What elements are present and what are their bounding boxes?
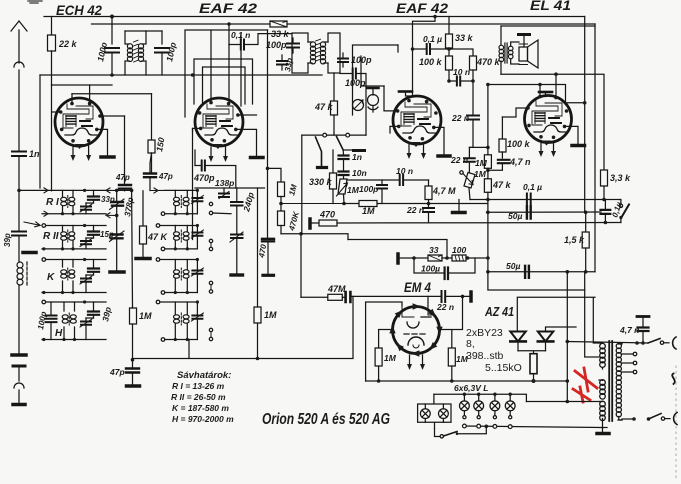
tube ECH42 pins bbox=[59, 102, 102, 149]
svg-text:47 K: 47 K bbox=[147, 232, 169, 242]
svg-text:22 n: 22 n bbox=[450, 155, 468, 165]
speaker box bbox=[500, 26, 502, 74]
svg-text:EAF 42: EAF 42 bbox=[199, 0, 257, 16]
coil K bbox=[63, 260, 74, 293]
wire heater rail y381 bbox=[366, 380, 568, 382]
variable capacitor 378p bbox=[110, 190, 125, 215]
wire rail y233.8 segment bbox=[281, 234, 348, 240]
speaker top bar bbox=[519, 35, 530, 48]
wire secondary top to plug row bbox=[618, 343, 622, 344]
coil antenna primary bbox=[17, 262, 27, 354]
wire ECH42 left pins to column bbox=[52, 85, 61, 191]
band switch wires around tubes bbox=[192, 128, 194, 131]
cathode arrows EM4 bbox=[407, 355, 425, 370]
variable capacitor (osc gang) bbox=[230, 232, 243, 274]
svg-text:1M: 1M bbox=[139, 311, 152, 321]
wire x567.3 drop bbox=[566, 272, 568, 402]
grid cap bar EL41 bbox=[539, 92, 552, 96]
wire x267.5 drop bbox=[267, 30, 269, 238]
resistor 1M (AVC divider upper) bbox=[278, 182, 285, 204]
wire rail y75 bbox=[40, 74, 322, 76]
potentiometer 1M (tone) bbox=[460, 171, 475, 200]
wire x301 riser bbox=[300, 234, 302, 297]
wire RI top rail bbox=[19, 189, 106, 191]
svg-text:10 n: 10 n bbox=[396, 166, 413, 176]
junction 3,3k/rail bbox=[602, 198, 606, 202]
tube EL41 envelope bbox=[525, 96, 572, 143]
capacitor 10n (screen bypass) bbox=[449, 77, 473, 86]
svg-text:100p: 100p bbox=[266, 40, 287, 50]
svg-text:470 k: 470 k bbox=[476, 57, 501, 67]
scan artifact top-left bbox=[28, 1, 42, 3]
capacitor 33p bbox=[277, 55, 287, 70]
resistor 47k (EL41 cathode) bbox=[484, 170, 491, 199]
wire rail y271.8 bbox=[488, 271, 595, 273]
svg-text:39p: 39p bbox=[3, 233, 12, 247]
ground (RF gang) bbox=[110, 270, 124, 274]
capacitor 100p (coupling) bbox=[340, 69, 366, 87]
lamp 5 bbox=[420, 404, 430, 422]
wire plate column x473 down bbox=[472, 81, 474, 115]
osc coil RI bbox=[175, 190, 187, 213]
junction x567.3/y341.5 bbox=[566, 340, 570, 344]
wire rail y199.5 bbox=[470, 199, 620, 201]
wire bottom rail y358 bbox=[133, 296, 354, 358]
junction 1M right/rail bbox=[450, 379, 454, 383]
wire osc bank bottom to rail bbox=[188, 340, 190, 359]
wire rail y239.5 bbox=[348, 240, 447, 259]
contact H top bbox=[42, 300, 46, 304]
primary winding taps left bbox=[593, 298, 599, 343]
svg-text:4,7 n: 4,7 n bbox=[509, 157, 531, 167]
wire diode2 anode feed bbox=[546, 327, 577, 332]
resistor 33 bbox=[428, 255, 452, 261]
svg-text:EM 4: EM 4 bbox=[404, 280, 431, 295]
resistor 1M (EM4 right) bbox=[448, 348, 455, 381]
junction 33/100 bbox=[445, 256, 449, 260]
wire EM4 top feed bbox=[427, 296, 429, 307]
junction 0,1u/x412 bbox=[411, 47, 415, 51]
tube EAF42#2 envelope bbox=[393, 96, 441, 144]
wire x40 drop to band rail bbox=[39, 75, 41, 188]
wire 22n to 1M top bbox=[469, 146, 488, 148]
svg-text:Sávhatárok:: Sávhatárok: bbox=[177, 370, 231, 381]
resistor 470k (plate) bbox=[470, 56, 477, 81]
junction 470k bottom bbox=[471, 79, 475, 83]
resistor 330k bbox=[330, 150, 337, 204]
svg-text:4,7 n: 4,7 n bbox=[619, 325, 639, 335]
wire diode1 anode feed bbox=[517, 297, 595, 332]
tube EAF42#2 internals bbox=[401, 102, 435, 133]
transformer left winding top group bbox=[600, 343, 606, 367]
wire K top rail bbox=[46, 259, 106, 261]
coil H bbox=[64, 302, 75, 340]
transformer left winding mid group bbox=[600, 380, 606, 399]
switch arrow RI bottom bbox=[44, 211, 48, 216]
wire RII bottom rail bbox=[42, 248, 106, 250]
resistor 470K (AVC divider lower) bbox=[278, 204, 285, 234]
osc row RII top rail bbox=[160, 225, 197, 227]
switch contact b bbox=[346, 133, 350, 137]
resistor 1M (grid EL41) bbox=[484, 147, 491, 170]
svg-text:1M: 1M bbox=[474, 169, 487, 179]
junction dots H bbox=[42, 300, 86, 341]
svg-text:47M: 47M bbox=[327, 284, 346, 294]
resistor 47K (AVC) bbox=[140, 191, 147, 257]
junction x116.7 nodes bbox=[115, 189, 119, 193]
wire x487.9 column bbox=[487, 85, 489, 273]
transformer secondary winding right bbox=[616, 343, 621, 417]
junction node rail1/x112 bbox=[110, 15, 114, 19]
switch blade b bbox=[337, 137, 344, 151]
wire plug bottom stub bbox=[665, 418, 670, 420]
osc coil K bbox=[175, 260, 187, 293]
capacitor 47p (osc pad) bbox=[126, 360, 139, 385]
cathode arrows EL41 bbox=[539, 142, 557, 157]
contact K top bbox=[42, 258, 46, 262]
tuning indicator symbol bbox=[368, 88, 379, 112]
mains squiggle bbox=[672, 374, 675, 385]
wire tube2 left pin to long drop x192.5 bbox=[193, 128, 201, 239]
wire long vertical x257 bbox=[257, 188, 259, 307]
speaker bbox=[519, 40, 538, 68]
junction divider/rail bbox=[279, 202, 283, 206]
red X mark 1 bbox=[575, 368, 597, 391]
wire x229 to tube2 grid pin bbox=[228, 45, 230, 104]
tube EAF42#1 pins bbox=[198, 101, 240, 149]
switch (dial lamps) bbox=[435, 426, 487, 438]
resistor 22k bbox=[48, 17, 56, 86]
svg-text:EAF 42: EAF 42 bbox=[396, 0, 448, 16]
contact pair H bbox=[209, 328, 212, 340]
capacitor 4,7n (tone) bbox=[488, 160, 510, 171]
wire AVC line y180 bbox=[347, 179, 429, 181]
wire 47p B to bank top bbox=[150, 188, 165, 193]
IF transformer T2 left box bbox=[292, 33, 308, 73]
wire T1 top bbox=[125, 30, 146, 32]
resistor 100 bbox=[452, 255, 488, 261]
junction x257 bbox=[256, 357, 260, 361]
ground EL41 cathode bbox=[565, 126, 585, 145]
svg-text:1n: 1n bbox=[352, 152, 362, 162]
junction 4,7n row bbox=[641, 341, 645, 345]
junction lamps rail bbox=[463, 393, 512, 396]
wire x229 drop bbox=[228, 24, 230, 45]
wire heater/plug row y343 bbox=[567, 342, 648, 344]
junction 33k/0,1u bbox=[447, 47, 451, 51]
resistor 33k (screen) bbox=[446, 17, 453, 57]
svg-text:H: H bbox=[55, 328, 63, 339]
ground tube3 cathode bbox=[434, 127, 450, 156]
capacitor 1n (AF) bbox=[339, 150, 349, 171]
svg-text:50µ: 50µ bbox=[506, 261, 520, 271]
terminal bar (AVC det) bbox=[354, 149, 365, 152]
wire right rail x584.7 bbox=[584, 17, 586, 213]
junction lamp bus bbox=[485, 425, 489, 429]
cathode arrows ECH42 bbox=[71, 146, 92, 161]
resistor 100k (EL41 grid stopper) bbox=[499, 117, 506, 158]
wire RII top rail bbox=[46, 225, 106, 227]
contact pair RII bbox=[209, 239, 212, 250]
wire EAF42#1 routing box inner2 bbox=[203, 67, 246, 104]
wire 470k top bbox=[449, 49, 473, 56]
svg-text:5..15kO: 5..15kO bbox=[485, 362, 522, 374]
capacitor 15p RII bbox=[88, 226, 99, 239]
scan edge dots right bbox=[675, 366, 677, 480]
potentiometer 1M (volume) bbox=[337, 179, 348, 204]
wire EL41 grid from 100k bbox=[502, 108, 528, 117]
ground (transformer) bbox=[597, 428, 609, 434]
junction x487.9/y258 bbox=[486, 256, 490, 260]
svg-text:330 k: 330 k bbox=[309, 177, 333, 187]
svg-text:R II: R II bbox=[43, 231, 59, 242]
svg-text:1,5 k: 1,5 k bbox=[564, 235, 585, 245]
plug bottom bbox=[674, 413, 677, 425]
wire speaker box top/right bbox=[501, 25, 595, 27]
contact pair K bbox=[209, 281, 212, 293]
capacitor 100u bypass loop bbox=[414, 258, 475, 279]
secondary taps bbox=[622, 352, 637, 374]
antenna bbox=[11, 21, 27, 151]
svg-text:138p: 138p bbox=[215, 178, 234, 188]
svg-text:100µ: 100µ bbox=[421, 264, 440, 274]
svg-text:22 n: 22 n bbox=[406, 205, 424, 215]
svg-text:100: 100 bbox=[452, 245, 466, 255]
trimmer K bbox=[80, 275, 94, 293]
wire rail y222.5 (B+) bbox=[337, 222, 621, 225]
lamp 6 bbox=[439, 404, 449, 422]
junction B+/lamp line bbox=[566, 400, 570, 404]
svg-text:1M: 1M bbox=[347, 185, 360, 195]
svg-text:ECH 42: ECH 42 bbox=[56, 2, 102, 18]
junction pot/rail bbox=[342, 202, 346, 206]
IF transformer T2 windings bbox=[308, 39, 328, 64]
svg-text:1M: 1M bbox=[384, 353, 397, 363]
wire ECH42 top pins bbox=[72, 85, 90, 104]
junction x567.3/y381 bbox=[566, 379, 570, 383]
capacitor 22n (plate decoupling) bbox=[467, 116, 479, 148]
wire EM4 top rail bbox=[352, 295, 469, 297]
resistor 100k (divider) bbox=[446, 56, 453, 81]
wire EM4 box bbox=[366, 302, 402, 381]
wire screen line y84.5 bbox=[488, 85, 585, 103]
svg-text:100p: 100p bbox=[359, 184, 378, 194]
wire lamp bottom bus bbox=[463, 426, 602, 428]
wire rail2 bbox=[92, 23, 596, 25]
wire 33 row bbox=[400, 257, 429, 259]
wire EL41 top pin feeds bbox=[540, 74, 556, 97]
svg-text:470p: 470p bbox=[193, 173, 215, 183]
junction 100k/10n bbox=[447, 79, 451, 83]
resistor surge (5..15k) bbox=[530, 354, 537, 381]
wire rail y203.5 bbox=[344, 203, 488, 205]
resistor 47M bbox=[301, 294, 344, 300]
capacitor 240p (padder) bbox=[231, 188, 243, 234]
osc trimmer K bbox=[191, 260, 203, 293]
svg-text:470: 470 bbox=[319, 210, 335, 220]
ground (47K) bbox=[136, 257, 150, 261]
capacitor 470p bbox=[195, 150, 236, 188]
wire blade b to bar bbox=[343, 149, 359, 151]
wire AVC switch line bbox=[302, 134, 366, 136]
terminal bar (470 row) bbox=[308, 219, 312, 228]
tube ECH42 envelope bbox=[55, 98, 103, 146]
junction plug row bbox=[635, 341, 639, 345]
svg-text:100 k: 100 k bbox=[419, 57, 443, 67]
wire IF 47k to line bbox=[333, 133, 335, 135]
junction 4,7M/rail bbox=[427, 202, 431, 206]
wire x241 tube2 feed bbox=[240, 34, 242, 106]
capacitor 22n (EM4 grid) bbox=[442, 291, 446, 302]
resistor 470 bbox=[312, 220, 338, 226]
earth electrode symbol bbox=[13, 366, 25, 405]
svg-text:0,1 µ: 0,1 µ bbox=[523, 182, 542, 192]
osc row RI bottom rail bbox=[165, 213, 197, 215]
contact RII top bbox=[42, 224, 46, 228]
svg-text:22 n: 22 n bbox=[451, 113, 469, 123]
resistor 1,5k bbox=[582, 212, 589, 271]
coil RI bbox=[63, 190, 74, 213]
ground (tone pot) bbox=[453, 200, 466, 213]
wire ECH42 grid to 47p column bbox=[100, 115, 125, 117]
wire rail y85 bbox=[52, 84, 113, 86]
switch (bottom plug) bbox=[632, 414, 665, 421]
tube EL41 internals bbox=[532, 101, 566, 132]
tube EAF42#2 pins bbox=[396, 99, 438, 147]
osc row K bottom rail bbox=[165, 292, 197, 294]
capacitor 100p (T1 right) bbox=[146, 31, 169, 75]
resistor 150 bbox=[148, 94, 155, 173]
tube EM4 internals bbox=[402, 307, 433, 348]
osc row RII bottom rail bbox=[165, 248, 197, 250]
ground (antenna coil) bbox=[12, 353, 26, 357]
wire tube3 box inner bbox=[361, 45, 398, 86]
svg-text:50µ: 50µ bbox=[508, 211, 522, 221]
terminal bar (AVC in) bbox=[469, 292, 473, 301]
capacitor 0,1u (tube3 grid) bbox=[413, 44, 450, 54]
switch (top plug) bbox=[648, 339, 664, 345]
wire x301.8 drop bbox=[301, 135, 303, 234]
junction y272 x585.7 bbox=[584, 270, 588, 274]
svg-text:3,3 k: 3,3 k bbox=[610, 173, 631, 183]
wire row 138p y188 bbox=[195, 187, 265, 189]
capacitor 50u (main filter) bbox=[525, 266, 529, 278]
junction x267.5/y168.4 bbox=[266, 167, 270, 171]
wire x366 drop bbox=[365, 86, 367, 135]
lamp 4 bbox=[505, 394, 515, 419]
capacitor 470 (osc cathode) bbox=[262, 239, 274, 274]
junction 1M left/rail bbox=[377, 379, 381, 383]
svg-text:H = 970-2000 m: H = 970-2000 m bbox=[172, 414, 234, 424]
ground (470 cap) bbox=[263, 274, 274, 277]
IF transformer T2 right box bbox=[328, 33, 340, 73]
svg-text:1M: 1M bbox=[362, 206, 375, 216]
wire H top rail bbox=[46, 301, 106, 303]
lamp pair bracket bbox=[418, 394, 451, 428]
tube ECH42 internals bbox=[63, 104, 97, 135]
wire EAF42#1 routing box outer bbox=[185, 30, 268, 117]
IF transformer T1 100p capacitor left bbox=[105, 17, 119, 76]
transformer core bbox=[609, 341, 612, 421]
svg-text:398..stb: 398..stb bbox=[466, 350, 504, 362]
terminal bars (pickup) bbox=[346, 292, 351, 302]
junction 1M bottom bbox=[131, 358, 135, 362]
capacitor 22n (AF out) bbox=[423, 204, 434, 223]
trimmer RII bbox=[80, 238, 94, 249]
svg-text:47 k: 47 k bbox=[314, 102, 334, 112]
junction y84.5/x540 bbox=[538, 83, 542, 87]
capacitor 100p (AVC) bbox=[377, 180, 387, 204]
svg-text:8,: 8, bbox=[466, 338, 475, 350]
wire plate line y74.2 bbox=[501, 74, 604, 170]
osc row H top rail bbox=[160, 301, 197, 303]
trimmer RI bbox=[80, 203, 94, 214]
contacts lamp bus bbox=[463, 424, 513, 428]
osc trimmer RI bbox=[191, 190, 203, 213]
osc trimmer RII bbox=[191, 226, 203, 249]
junction rail1 x435 bbox=[433, 15, 437, 19]
junction 1M top bbox=[486, 146, 490, 150]
junction dots K bbox=[42, 258, 86, 294]
junction y272 x487.9 bbox=[486, 270, 490, 274]
resistor 1M (osc grid) bbox=[130, 307, 137, 360]
wire HT rail top bbox=[44, 16, 585, 18]
capacitor 10n (AF) bbox=[339, 172, 349, 180]
junction EM4 rail bbox=[461, 295, 465, 299]
wire x211 tube2 feed bbox=[210, 30, 212, 103]
svg-text:47 k: 47 k bbox=[492, 180, 512, 190]
terminal bar (33 row) bbox=[396, 254, 400, 263]
wire rail y212.3 bbox=[487, 211, 602, 213]
wire plate feed jog bbox=[413, 17, 436, 50]
wire RI bottom rail bbox=[42, 213, 106, 215]
ground ECH42 cathode bbox=[97, 129, 114, 157]
capacitor 39p (antenna series) bbox=[12, 191, 26, 262]
tube EAF42#1 internals bbox=[203, 104, 237, 135]
osc row RI top rail bbox=[165, 189, 197, 191]
IF transformer T1 windings bbox=[125, 31, 146, 75]
junction dots RII bbox=[42, 224, 86, 251]
osc coil RII bbox=[175, 226, 187, 249]
mains switch bbox=[619, 200, 629, 223]
variable capacitor (osc gang) bbox=[110, 215, 125, 271]
junction x585.7/rail2 bbox=[584, 211, 588, 215]
osc coil H bbox=[175, 302, 187, 340]
wire rail y203.5 left stub bbox=[281, 203, 345, 205]
switch contacts pair bbox=[209, 202, 231, 214]
capacitor 1n bbox=[12, 152, 26, 192]
svg-text:1M: 1M bbox=[475, 158, 488, 168]
capacitor 33p RI bbox=[88, 190, 99, 203]
switch blade a bbox=[316, 137, 327, 168]
capacitor 0,1n bbox=[229, 34, 292, 50]
capacitor 0,1u (ripple) bbox=[601, 200, 611, 225]
svg-text:33 k: 33 k bbox=[455, 33, 474, 43]
wire rail ext y190.4 bbox=[106, 188, 132, 193]
svg-text:47p: 47p bbox=[109, 367, 125, 377]
capacitor 50u (in rail y212.3) bbox=[527, 207, 531, 219]
svg-text:K: K bbox=[47, 272, 55, 283]
svg-text:6x6,3V L: 6x6,3V L bbox=[454, 383, 489, 393]
capacitor 22n (coupling to pot) bbox=[464, 147, 475, 172]
lamp 2 bbox=[474, 394, 484, 419]
wire K bottom rail bbox=[42, 292, 106, 294]
svg-text:AZ 41: AZ 41 bbox=[484, 304, 514, 319]
wire tube3 box left bbox=[353, 45, 399, 115]
wire EM4 right pin to 1M bbox=[440, 296, 463, 348]
svg-text:K = 187-580 m: K = 187-580 m bbox=[172, 403, 229, 413]
wire tuning line x131.6 bbox=[131, 190, 134, 307]
